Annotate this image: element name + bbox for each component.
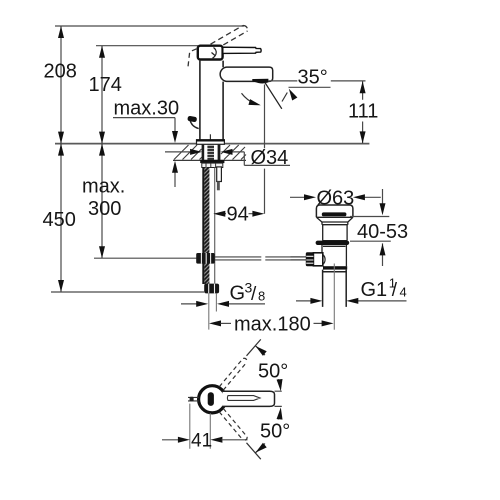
drain lower body (322, 245, 346, 266)
35deg dimension line (268, 80, 366, 82)
svg-text:max.180: max.180 (234, 314, 311, 336)
dimension 208 line (58, 26, 64, 292)
svg-text:50°: 50° (260, 421, 290, 443)
hose upper section (202, 168, 214, 285)
mounting nut (200, 160, 224, 163)
horizontal reference line (289, 86, 331, 88)
rod stub left (188, 397, 199, 401)
drain axis extension line (333, 264, 335, 330)
rod to knob (291, 257, 306, 260)
rod horizontal double line (215, 257, 307, 260)
svg-text:Ø34: Ø34 (251, 147, 289, 169)
stream direction line (265, 82, 282, 109)
G3/8 width arrows (181, 303, 265, 305)
threaded rod (207, 145, 214, 163)
cartridge head U1 (198, 46, 223, 60)
svg-text:208: 208 (44, 61, 77, 83)
svg-text:300: 300 (88, 198, 121, 220)
dimension 174 / max.300 line (99, 46, 105, 259)
upper dashed swing ray (219, 358, 247, 390)
svg-text:174: 174 (89, 74, 122, 96)
D63 dimension arrows (290, 196, 381, 198)
head inner arc (212, 48, 217, 59)
rod clamp fitting on hose (196, 253, 215, 264)
pop-up rod stub (217, 167, 222, 182)
spout outlet extension line (264, 85, 266, 214)
wire: counter bottom line (173, 159, 246, 161)
drain upper body (322, 222, 348, 241)
hose nut (204, 284, 219, 294)
extension lines below G3/8 (208, 293, 210, 329)
max.30 dimension: upper arrow (174, 118, 176, 132)
bottom compression nut (323, 266, 347, 269)
svg-text:/: / (392, 280, 398, 301)
shank right wall (218, 145, 221, 161)
svg-text:35°: 35° (298, 67, 328, 89)
svg-text:94: 94 (227, 204, 249, 226)
faucet column (199, 61, 201, 140)
wire: 174 top extension line (96, 45, 198, 47)
upper ray solid tail (247, 339, 261, 355)
svg-text:40-53: 40-53 (357, 221, 408, 243)
o-ring dark band (316, 241, 350, 245)
svg-text:50°: 50° (258, 361, 288, 383)
dashed raised lever (open position) (211, 26, 248, 50)
dashed tilted cartridge cap outline (188, 49, 197, 67)
svg-text:450: 450 (43, 209, 76, 231)
wire: max.300 bottom reference line (94, 257, 197, 259)
base flange (197, 140, 225, 145)
lever handle (223, 47, 261, 53)
aerator (252, 79, 268, 84)
angle arc left arrow (242, 93, 257, 104)
lever top view (223, 391, 275, 406)
flange taper (316, 217, 353, 222)
angle arc right arrow (282, 93, 287, 102)
spout arm (220, 67, 273, 81)
svg-text:G: G (230, 283, 246, 305)
lever edge extension ticks (275, 391, 282, 406)
G1 1/4 arrows (296, 300, 407, 302)
pull rod housing (313, 253, 322, 266)
wire: counter top line (55, 143, 369, 145)
svg-text:4: 4 (400, 285, 407, 300)
94 dimension (223, 213, 254, 215)
svg-text:/: / (251, 284, 257, 305)
knurled knob (306, 252, 314, 266)
threaded rod axis above counter (209, 134, 211, 144)
svg-text:41: 41 (191, 431, 212, 452)
lower ray solid tail (247, 443, 261, 459)
svg-text:8: 8 (258, 289, 265, 304)
pull-rod knob behind faucet (190, 120, 199, 129)
svg-text:max.30: max.30 (114, 98, 180, 120)
drain flange (316, 205, 353, 217)
shank left wall (202, 145, 205, 161)
tailpipe (323, 270, 347, 307)
pivot bar (208, 392, 214, 406)
wire: 450 bottom reference line (51, 291, 204, 293)
hatching left of faucet shank (174, 145, 202, 160)
lower 50deg arc arrows (255, 444, 265, 453)
svg-text:111: 111 (348, 101, 378, 123)
wire: top extension line (208 top, lever tip level) (55, 25, 244, 27)
faucet body circle (199, 386, 226, 413)
lower dashed swing ray (219, 409, 247, 441)
lever slot (227, 396, 260, 401)
svg-text:max.: max. (82, 176, 125, 198)
41 extension lines (190, 404, 211, 449)
41 dimension (162, 439, 179, 441)
flange seal dark band (322, 212, 347, 216)
max.30 dimension: lower arrow (174, 172, 176, 187)
svg-text:G1: G1 (361, 279, 388, 301)
hatching right of faucet shank (221, 145, 246, 160)
upper 50deg arc arrows (255, 346, 265, 355)
